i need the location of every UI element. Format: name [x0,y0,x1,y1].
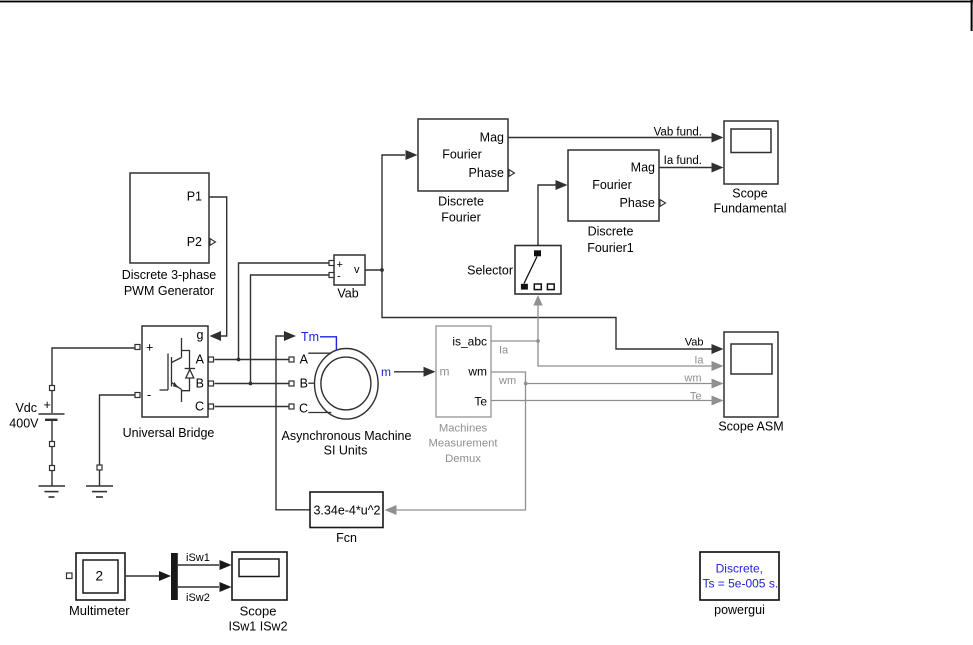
svg-text:iSw2: iSw2 [186,592,210,604]
svg-text:PWM Generator: PWM Generator [124,284,214,298]
svg-text:-: - [147,388,151,402]
block Vab voltage measurement [329,255,365,301]
svg-text:Fundamental: Fundamental [714,202,787,216]
svg-text:Phase: Phase [469,166,504,180]
wire Te to Scope ASM Te input [491,396,724,406]
wire tap B to Vab minus [251,275,330,384]
svg-text:C: C [299,402,308,416]
svg-text:C: C [195,400,204,414]
signal labels at Scope ASM inputs [683,336,704,402]
svg-text:Machines: Machines [439,422,488,434]
svg-text:m: m [381,365,391,379]
wire Discrete Fourier Mag to Scope Fundamental [508,126,724,142]
svg-text:Phase: Phase [620,196,655,210]
block Discrete Fourier1 [568,150,666,255]
svg-text:Measurement: Measurement [428,438,498,450]
wire Vdc minus to ground [50,421,55,486]
svg-text:+: + [337,259,343,271]
block Multimeter [67,553,131,618]
svg-text:+: + [146,341,153,355]
svg-text:A: A [196,353,205,367]
svg-text:3.34e-4*u^2: 3.34e-4*u^2 [313,504,380,518]
demux bar iSw [171,553,178,600]
wire Multimeter to demux bar [125,571,171,581]
svg-text:P1: P1 [187,190,202,204]
port + of bridge [135,345,140,350]
svg-text:is_abc: is_abc [452,334,487,348]
svg-text:ISw1 ISw2: ISw1 ISw2 [228,619,287,633]
port C of bridge [209,404,214,409]
port B of bridge [209,381,214,386]
svg-text:Ia fund.: Ia fund. [664,155,702,167]
svg-text:Selector: Selector [467,264,513,278]
wire is_abc to junction [491,339,540,356]
svg-text:Scope: Scope [732,187,767,201]
svg-text:Scope ASM: Scope ASM [718,420,783,434]
block Universal Bridge [123,326,215,440]
block powergui [700,552,779,617]
node Tm blue label and wire into machine [301,330,336,350]
wire P1 to g of Universal Bridge [209,197,227,341]
block Scope ISw1 ISw2 [228,552,287,633]
svg-text:Multimeter: Multimeter [69,603,130,618]
svg-text:Te: Te [690,391,702,403]
svg-text:Discrete 3-phase: Discrete 3-phase [122,268,217,282]
svg-text:B: B [300,376,308,390]
svg-text:Vdc: Vdc [15,401,37,415]
svg-text:Mag: Mag [480,131,504,145]
asynchronous machine ASM circles [282,349,412,458]
svg-text:Tm: Tm [301,330,319,344]
svg-text:Fcn: Fcn [336,531,357,545]
svg-text:Vab: Vab [685,336,704,348]
svg-text:Vab: Vab [337,287,358,301]
wire iSw2 to scope [178,582,232,604]
svg-text:SI Units: SI Units [324,444,368,458]
svg-text:B: B [196,377,204,391]
svg-text:Scope: Scope [240,603,277,618]
wire Discrete Fourier1 Mag to Scope Fundamental [659,155,724,172]
svg-text:Ts = 5e-005 s.: Ts = 5e-005 s. [702,577,778,591]
transistor IGBT with diode icon inside Universal Bridge [160,338,196,402]
wire Selector output to Discrete Fourier1 input [538,180,568,246]
svg-text:Universal Bridge: Universal Bridge [123,426,215,440]
svg-text:P2: P2 [187,235,202,249]
frame right border line [971,0,973,31]
svg-text:g: g [197,328,204,342]
svg-text:A: A [300,352,309,366]
block Discrete Fourier [418,119,515,225]
svg-text:Discrete,: Discrete, [716,562,763,576]
wire bridge B to machine B [215,382,290,386]
svg-text:Fourier: Fourier [592,178,632,192]
svg-text:m: m [440,364,450,378]
wire bridge minus to ground [97,395,135,486]
block Selector [467,246,561,295]
svg-text:Discrete: Discrete [438,194,484,208]
svg-text:Demux: Demux [445,453,481,465]
ground symbol right [86,486,113,497]
svg-text:Ia: Ia [694,354,704,366]
wire bridge C to machine C [215,406,290,408]
svg-text:Fourier1: Fourier1 [587,241,634,255]
wire bridge A to machine A [215,358,290,362]
port - of bridge [135,393,140,398]
svg-text:wm: wm [683,372,701,384]
svg-text:Vab fund.: Vab fund. [654,126,702,138]
svg-text:Fourier: Fourier [442,148,482,162]
svg-text:v: v [354,264,360,276]
block Scope Fundamental [714,121,787,216]
svg-text:iSw1: iSw1 [186,552,210,564]
wire junction up to Selector input [533,295,542,341]
svg-text:-: - [337,271,341,283]
DC voltage source Vdc 400V [9,348,134,431]
svg-text:2: 2 [96,569,104,584]
wire tap A to Vab plus [239,263,330,360]
svg-text:Discrete: Discrete [588,225,634,239]
frame top border line [0,1,973,3]
ground symbol left [39,486,66,497]
svg-text:powergui: powergui [714,603,765,617]
block Machines Measurement Demux [428,326,498,465]
wire iSw1 to scope [178,552,232,570]
wire junction down to Scope ASM Vab input [382,270,724,354]
block Fcn 3.34e-4*u^2 [310,492,383,545]
svg-text:400V: 400V [9,417,39,431]
port A of bridge [209,357,214,362]
svg-text:Fourier: Fourier [441,211,481,225]
wire junction up to Discrete Fourier input [382,150,418,270]
svg-text:Ia: Ia [499,345,509,357]
svg-text:wm: wm [467,364,487,378]
svg-text:Te: Te [474,395,487,409]
node m output label and wire machine to demux [381,365,436,379]
wire Vab output with junction node [365,268,384,272]
wire wm to Scope ASM wm input [491,372,724,389]
block Discrete 3-phase PWM Generator [122,173,217,298]
wire junction to Scope ASM Ia input [538,341,724,371]
svg-text:Asynchronous Machine: Asynchronous Machine [282,429,412,443]
svg-text:+: + [44,398,51,412]
block Scope ASM [718,332,783,434]
wire wm down to Fcn input [385,384,526,516]
wire Fcn output up to Tm input arrow [276,331,310,510]
svg-text:Mag: Mag [631,161,655,175]
svg-text:wm: wm [498,375,516,387]
